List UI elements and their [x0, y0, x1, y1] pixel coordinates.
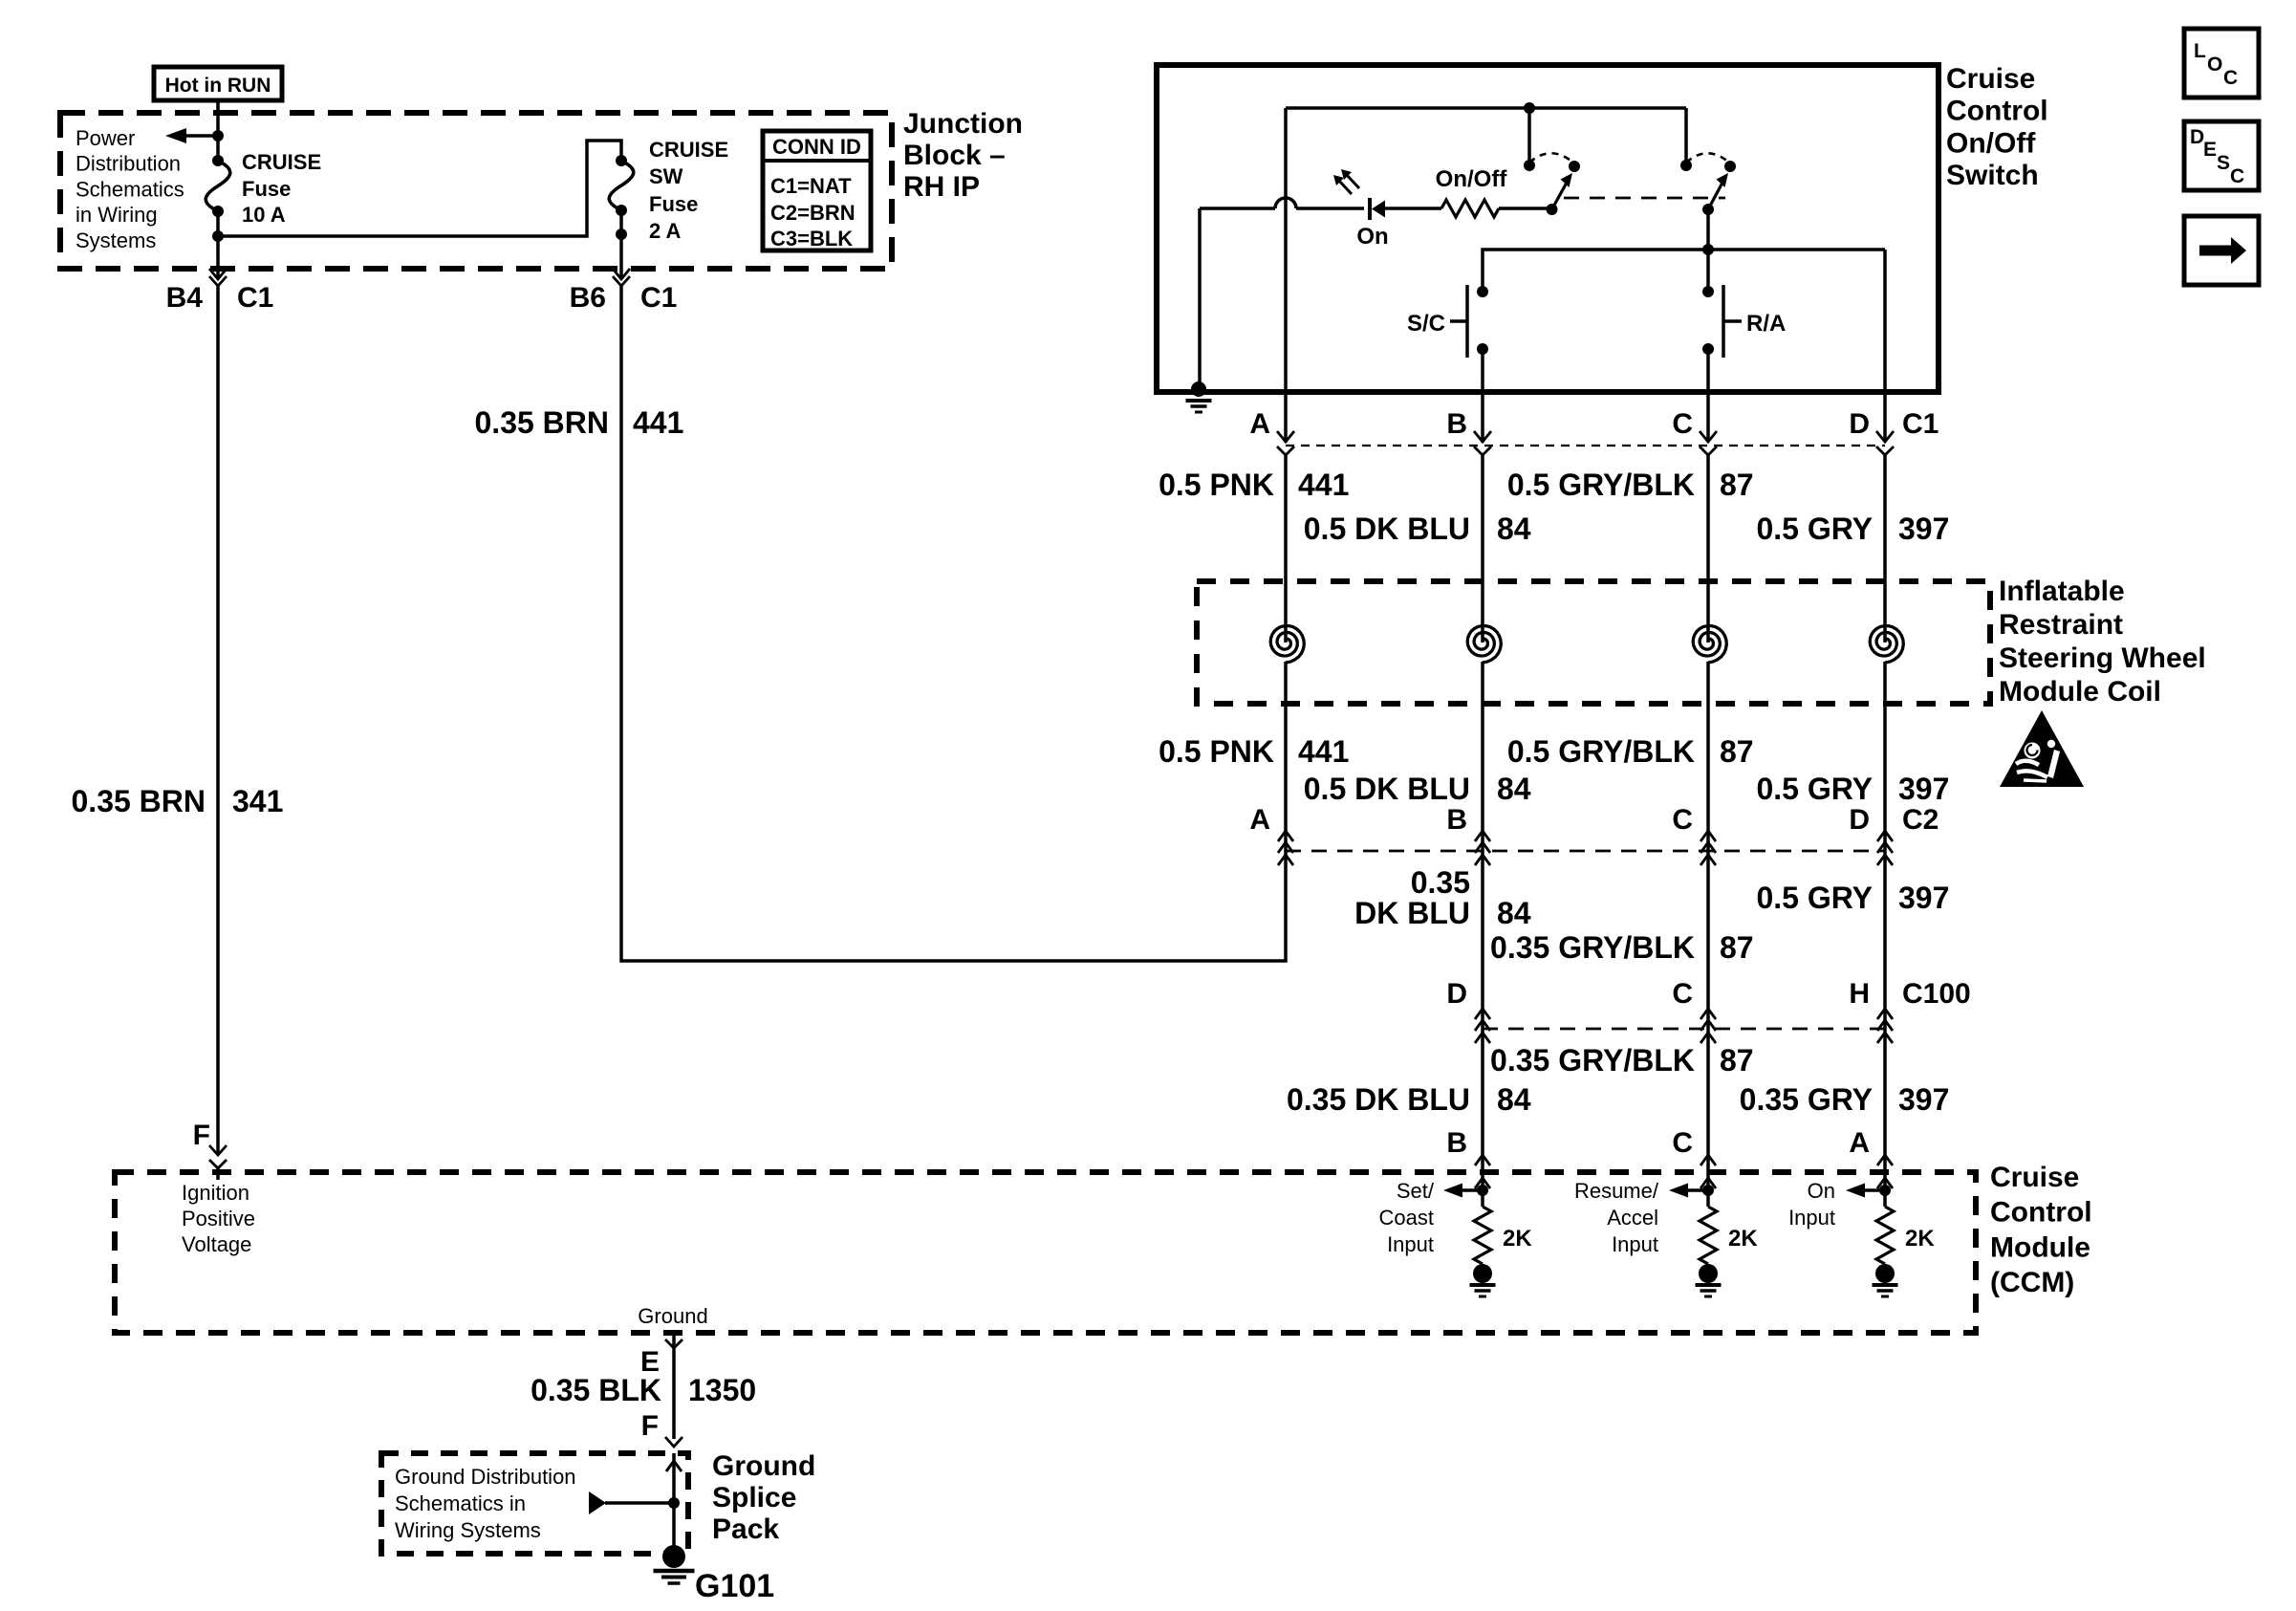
svg-text:Resume/: Resume/: [1574, 1179, 1659, 1203]
svg-text:0.5 GRY: 0.5 GRY: [1756, 772, 1873, 806]
svg-text:87: 87: [1720, 930, 1754, 965]
svg-text:Control: Control: [1946, 96, 2048, 127]
svg-text:0.5 GRY: 0.5 GRY: [1756, 512, 1873, 546]
coil B: [1467, 626, 1501, 663]
svg-text:C1=NAT: C1=NAT: [770, 174, 852, 198]
junction block dashed box (Junction Block - RH IP): [60, 113, 892, 269]
svg-text:0.5 DK BLU: 0.5 DK BLU: [1304, 512, 1470, 546]
svg-text:On/Off: On/Off: [1436, 166, 1508, 192]
svg-text:F: F: [193, 1120, 210, 1151]
svg-text:Schematics in: Schematics in: [395, 1491, 526, 1515]
connector dashed line C1 below switch: [1286, 445, 1885, 446]
svg-text:H: H: [1849, 978, 1870, 1010]
svg-text:Input: Input: [1612, 1232, 1658, 1256]
wire D C2 to C100: [1883, 836, 1887, 1009]
svg-text:84: 84: [1497, 896, 1531, 930]
svg-text:0.5 GRY/BLK: 0.5 GRY/BLK: [1507, 734, 1695, 769]
svg-text:0.35: 0.35: [1411, 865, 1470, 900]
svg-text:C2=BRN: C2=BRN: [770, 201, 856, 225]
svg-text:Module: Module: [1990, 1231, 2090, 1263]
connector pin B at CCM: [1475, 1155, 1490, 1165]
svg-text:Ground Distribution: Ground Distribution: [395, 1465, 576, 1489]
svg-text:Pack: Pack: [712, 1513, 779, 1545]
svg-text:0.5 PNK: 0.5 PNK: [1159, 734, 1274, 769]
dashed detent arc momentary switch: [1686, 153, 1730, 163]
svg-text:Control: Control: [1990, 1197, 2092, 1229]
svg-text:CONN ID: CONN ID: [772, 135, 861, 159]
connector dashed line C2: [1286, 850, 1885, 853]
svg-text:Schematics: Schematics: [76, 177, 184, 201]
connector pin C of C2: [1700, 831, 1716, 841]
svg-text:C: C: [1672, 1127, 1693, 1159]
svg-text:Cruise: Cruise: [1946, 63, 2035, 95]
svg-text:C1: C1: [640, 282, 677, 314]
wire S/C R/A common rail: [1483, 250, 1885, 292]
connector pin A at CCM: [1877, 1155, 1893, 1165]
svg-text:C: C: [1672, 408, 1693, 440]
svg-text:87: 87: [1720, 734, 1754, 769]
wire blade to common rail and R/A contact: [1706, 209, 1710, 292]
svg-text:397: 397: [1898, 881, 1949, 915]
svg-text:10 A: 10 A: [242, 203, 286, 227]
svg-text:Junction: Junction: [903, 108, 1023, 140]
svg-text:0.35 BRN: 0.35 BRN: [72, 784, 206, 818]
arrow from other ground circuits (points right): [605, 1501, 674, 1505]
svg-text:Wiring Systems: Wiring Systems: [395, 1518, 541, 1542]
svg-text:C: C: [2223, 67, 2238, 89]
connector pin D of C100: [1475, 1009, 1490, 1019]
svg-text:1350: 1350: [688, 1373, 756, 1407]
svg-text:Steering Wheel: Steering Wheel: [1999, 642, 2206, 674]
svg-text:C3=BLK: C3=BLK: [770, 227, 853, 250]
wire C through coil box down to C2: [1706, 662, 1710, 836]
wire A through coil box down to C2: [1284, 662, 1288, 836]
connector into ground splice pack: [665, 1437, 682, 1447]
svg-text:397: 397: [1898, 512, 1949, 546]
wire C C1 to coil box: [1706, 454, 1710, 642]
wire left ground leg inside switch: [1198, 208, 1202, 389]
wire switch pin D drop to box bottom: [1883, 250, 1887, 395]
svg-text:0.5 PNK: 0.5 PNK: [1159, 468, 1274, 502]
node momentary switch left fixed contact: [1680, 160, 1692, 171]
svg-text:Input: Input: [1387, 1232, 1434, 1256]
wire pin A vertical inside switch: [1284, 108, 1288, 395]
svg-text:0.35 BLK: 0.35 BLK: [531, 1373, 661, 1407]
LED emission arrows: [1338, 180, 1352, 194]
wire B switch box bottom to C1: [1481, 392, 1484, 443]
connector pin B4 C1 at junction block: [209, 269, 227, 279]
svg-text:441: 441: [633, 405, 683, 440]
node momentary switch right fixed contact: [1724, 161, 1736, 172]
svg-text:C: C: [2230, 165, 2244, 187]
svg-text:0.35 DK BLU: 0.35 DK BLU: [1287, 1082, 1470, 1117]
wire A switch box bottom to C1: [1284, 392, 1288, 443]
coil A: [1270, 626, 1304, 663]
svg-text:Set/: Set/: [1397, 1179, 1435, 1203]
svg-text:On: On: [1356, 224, 1388, 250]
connector pin C of C100: [1700, 1009, 1716, 1019]
wire from Hot in RUN into junction block: [216, 100, 220, 161]
svg-text:0.35 GRY/BLK: 0.35 GRY/BLK: [1490, 930, 1695, 965]
wire LED rail with hop over pin A wire: [1200, 207, 1275, 210]
connector pin H of C100: [1877, 1009, 1893, 1019]
svg-text:0.35 BRN: 0.35 BRN: [475, 405, 610, 440]
svg-text:On/Off: On/Off: [1946, 127, 2036, 159]
svg-text:C1: C1: [1902, 408, 1939, 440]
svg-text:0.35 GRY: 0.35 GRY: [1740, 1082, 1873, 1117]
ground symbol at switch box bottom: [1191, 381, 1206, 397]
connector dashed line C100: [1483, 1028, 1885, 1031]
switch R/A pushbutton: [1702, 286, 1714, 297]
icon box forward arrow: [2184, 216, 2259, 285]
svg-text:Accel: Accel: [1607, 1206, 1658, 1230]
wire C C100 to CCM: [1706, 1009, 1710, 1178]
svg-text:84: 84: [1497, 512, 1531, 546]
svg-text:On: On: [1808, 1179, 1835, 1203]
icon box LOC: [2184, 29, 2259, 98]
svg-text:Module Coil: Module Coil: [1999, 676, 2161, 708]
wire 0.35 BRN 441 from B6 down and right up to switch pin A: [621, 285, 1286, 961]
wire C switch box bottom to C1: [1706, 392, 1710, 443]
svg-text:0.35 GRY/BLK: 0.35 GRY/BLK: [1490, 1043, 1695, 1078]
svg-text:CRUISE: CRUISE: [242, 150, 321, 174]
wire jumper from fuse1 output up to fuse2 input: [218, 141, 621, 236]
wire B C100 to CCM: [1481, 1009, 1484, 1178]
coil C: [1693, 626, 1726, 663]
svg-text:D: D: [1446, 978, 1467, 1010]
svg-text:Ground: Ground: [712, 1450, 815, 1482]
node fuse2 lower dot: [616, 229, 627, 240]
CCM On input with 2K resistor to ground: [1883, 1178, 1887, 1207]
switch S/C pushbutton: [1477, 286, 1488, 297]
svg-text:Cruise: Cruise: [1990, 1162, 2079, 1193]
SRS caution triangle symbol: [2000, 710, 2084, 787]
svg-text:L: L: [2194, 40, 2206, 62]
node power feed junction dot: [212, 130, 224, 142]
svg-text:F: F: [641, 1410, 659, 1442]
connector pin A of C2: [1278, 831, 1293, 841]
fuse CRUISE SW Fuse 2 A: [616, 155, 627, 166]
ground splice terminal dot: [662, 1545, 685, 1568]
svg-text:C100: C100: [1902, 978, 1971, 1010]
dashed mechanical link between blades: [1564, 197, 1725, 200]
connector Ground at CCM bottom: [665, 1339, 682, 1348]
connector pin C of C1: [1700, 431, 1717, 442]
svg-text:Block –: Block –: [903, 140, 1006, 171]
connector pin C at CCM: [1700, 1155, 1716, 1165]
svg-text:S: S: [2217, 152, 2230, 174]
connector pin B of C2: [1475, 831, 1490, 841]
svg-text:0.5 GRY/BLK: 0.5 GRY/BLK: [1507, 468, 1695, 502]
svg-text:Inflatable: Inflatable: [1999, 576, 2125, 607]
component box Cruise Control On/Off Switch: [1157, 65, 1939, 392]
component box Cruise Control Module CCM: [115, 1172, 1976, 1333]
node top rail junction dot: [1524, 102, 1535, 114]
connector pin B of C1: [1474, 431, 1491, 442]
node on/off right fixed contact: [1569, 161, 1580, 172]
svg-text:397: 397: [1898, 772, 1949, 806]
svg-text:84: 84: [1497, 1082, 1531, 1117]
connector pin D of C2: [1877, 831, 1893, 841]
wire A through C2 connector down to corner: [1284, 836, 1288, 855]
svg-text:Fuse: Fuse: [242, 177, 291, 201]
node splice junction dot: [668, 1497, 680, 1509]
fuse CRUISE Fuse 10 A: [212, 155, 224, 166]
svg-text:Input: Input: [1788, 1206, 1835, 1230]
wire inside splice pack with up arrow: [672, 1453, 676, 1557]
svg-text:D: D: [2190, 126, 2204, 148]
svg-text:84: 84: [1497, 772, 1531, 806]
ground symbol G101: [654, 1569, 695, 1574]
wire 0.35 BLK 1350 to ground splice pack: [672, 1333, 676, 1439]
svg-text:2K: 2K: [1728, 1226, 1758, 1252]
CCM Resume/Accel input with 2K resistor to ground: [1706, 1178, 1710, 1207]
svg-text:B: B: [1446, 1127, 1467, 1159]
node common rail junction dot at R/A: [1702, 244, 1714, 255]
svg-text:0.5 GRY: 0.5 GRY: [1756, 881, 1873, 915]
wire C C2 to C100: [1706, 836, 1710, 1009]
node fuse1 output junction dot: [212, 230, 224, 242]
svg-text:Voltage: Voltage: [182, 1232, 251, 1256]
node on/off left fixed contact: [1524, 160, 1535, 171]
svg-text:B: B: [1446, 408, 1467, 440]
svg-text:Splice: Splice: [712, 1482, 796, 1513]
resistor On/Off ballast: [1441, 200, 1499, 217]
switch blade momentary (right): [1702, 204, 1714, 215]
svg-text:Restraint: Restraint: [1999, 609, 2123, 641]
wire drop to momentary switch left contact: [1684, 108, 1688, 165]
svg-text:C: C: [1672, 978, 1693, 1010]
svg-text:Positive: Positive: [182, 1207, 255, 1230]
wire B C2 to C100: [1481, 836, 1484, 1009]
svg-text:RH IP: RH IP: [903, 171, 980, 203]
wire 0.35 BRN 341 from B4 to CCM pin F: [216, 285, 220, 1155]
svg-text:Switch: Switch: [1946, 160, 2039, 191]
svg-text:S/C: S/C: [1407, 311, 1445, 337]
wire resistor to on/off blade: [1499, 207, 1551, 210]
svg-text:C2: C2: [1902, 804, 1939, 836]
svg-text:A: A: [1249, 408, 1270, 440]
component box Ground Splice Pack: [381, 1453, 688, 1554]
svg-text:Power: Power: [76, 126, 135, 150]
svg-text:2K: 2K: [1503, 1226, 1532, 1252]
switch blade on/off: [1547, 204, 1558, 215]
svg-text:397: 397: [1898, 1082, 1949, 1117]
svg-text:B4: B4: [166, 282, 204, 314]
svg-text:D: D: [1849, 804, 1870, 836]
wire top rail inside switch: [1286, 106, 1686, 110]
svg-text:SW: SW: [649, 164, 683, 188]
svg-text:2K: 2K: [1905, 1226, 1935, 1252]
svg-text:Ignition: Ignition: [182, 1181, 249, 1205]
arrow to power distribution schematics (points left): [185, 134, 218, 138]
svg-text:C1: C1: [237, 282, 273, 314]
svg-text:B: B: [1446, 804, 1467, 836]
svg-text:R/A: R/A: [1746, 311, 1786, 337]
svg-text:C: C: [1672, 804, 1693, 836]
svg-text:CRUISE: CRUISE: [649, 138, 728, 162]
dashed detent arc on/off switch: [1529, 153, 1574, 163]
svg-text:0.5 DK BLU: 0.5 DK BLU: [1304, 772, 1470, 806]
svg-text:B6: B6: [570, 282, 606, 314]
connector pin D of C1: [1876, 431, 1894, 442]
coil D: [1870, 626, 1903, 663]
wire D through coil box down to C2: [1883, 662, 1887, 836]
svg-text:in Wiring: in Wiring: [76, 203, 158, 227]
svg-text:A: A: [1249, 804, 1270, 836]
svg-text:O: O: [2207, 54, 2222, 76]
wire fuse1 down to B4 connector: [216, 211, 220, 278]
wire B C1 to coil box: [1481, 454, 1484, 642]
wire drop to on/off left contact: [1527, 108, 1531, 165]
svg-text:A: A: [1849, 1127, 1870, 1159]
svg-text:D: D: [1849, 408, 1870, 440]
svg-text:341: 341: [232, 784, 283, 818]
svg-text:E: E: [2203, 139, 2217, 161]
svg-text:87: 87: [1720, 1043, 1754, 1078]
component box Inflatable Restraint Steering Wheel Module Coil: [1197, 581, 1990, 704]
wire B through coil box down to C2: [1481, 662, 1484, 836]
svg-text:Systems: Systems: [76, 229, 156, 252]
svg-text:2 A: 2 A: [649, 219, 682, 243]
label Hot in RUN box: [154, 67, 282, 100]
svg-text:441: 441: [1298, 734, 1349, 769]
wire R/A to pin C: [1706, 349, 1710, 395]
svg-text:87: 87: [1720, 468, 1754, 502]
svg-text:(CCM): (CCM): [1990, 1267, 2074, 1298]
CCM Set/Coast input with 2K resistor to ground: [1481, 1178, 1484, 1207]
CONN ID table box: [763, 131, 871, 250]
wire A C1 to coil box: [1284, 454, 1288, 642]
wire D C1 to coil box: [1883, 454, 1887, 642]
svg-text:441: 441: [1298, 468, 1349, 502]
connector pin B6 C1 at junction block: [613, 269, 630, 279]
svg-text:Fuse: Fuse: [649, 192, 698, 216]
svg-text:Ground: Ground: [638, 1304, 707, 1328]
wire D switch box bottom to C1: [1883, 392, 1887, 443]
svg-text:Coast: Coast: [1379, 1206, 1434, 1230]
svg-text:DK BLU: DK BLU: [1354, 896, 1470, 930]
svg-text:Distribution: Distribution: [76, 152, 181, 176]
wire S/C to pin B: [1481, 349, 1484, 395]
wire D C100 to CCM: [1883, 1009, 1887, 1178]
connector pin A of C1: [1277, 431, 1294, 442]
icon box DESC: [2184, 121, 2259, 190]
LED indicator diode On: [1368, 198, 1372, 220]
svg-text:G101: G101: [695, 1568, 774, 1604]
svg-text:Hot in RUN: Hot in RUN: [165, 75, 271, 97]
